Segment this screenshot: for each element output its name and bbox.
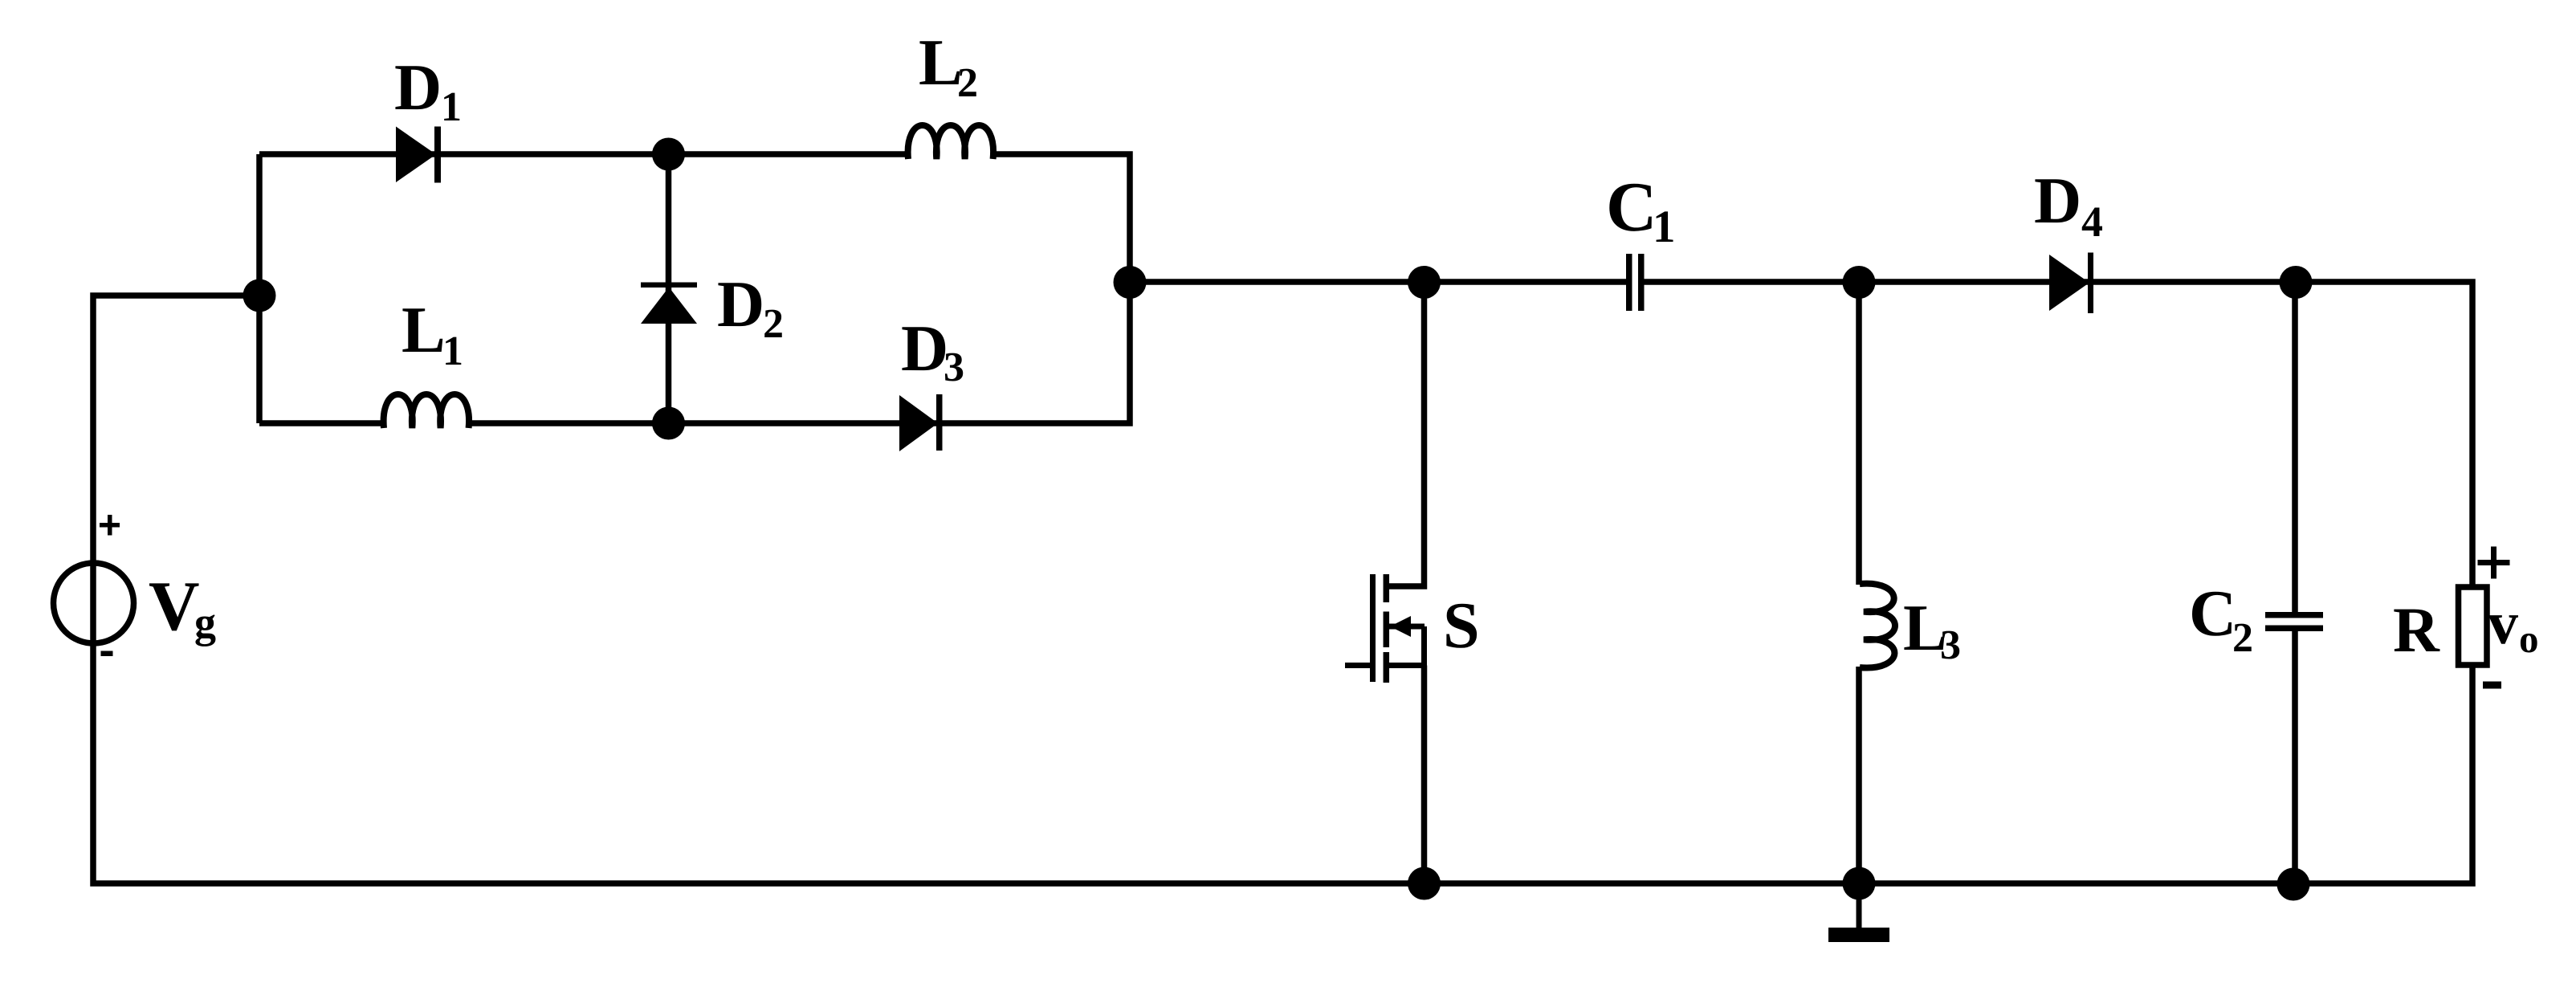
wire mid horizontal right (C1 to D4): [1644, 279, 2091, 285]
svg-text:g: g: [194, 598, 216, 646]
wire mid horizontal left (node C to C1): [1130, 279, 1626, 285]
wire bottom branch left segment: [259, 420, 385, 426]
node C junction: [1114, 266, 1147, 299]
wire L3 branch top: [1856, 282, 1862, 585]
wire input horizontal from Vg to node A: [93, 296, 259, 563]
diode D2: [641, 283, 697, 288]
wire C2 branch bottom: [2292, 631, 2298, 884]
svg-text:C: C: [2189, 577, 2236, 650]
node E junction: [1408, 266, 1441, 299]
wire top branch right to node C: [991, 154, 1130, 283]
wire diode D2 branch vertical: [666, 154, 672, 423]
node F junction: [1843, 266, 1876, 299]
wire L3 branch bottom: [1856, 667, 1862, 883]
wire node A vertical: [256, 154, 263, 423]
capacitor C1: [1626, 254, 1632, 311]
inductor L3: [1860, 584, 1895, 668]
wire S source to bottom rail: [1421, 666, 1428, 884]
wire drain of S from node E: [1387, 282, 1425, 586]
resistor R: [2459, 587, 2488, 665]
svg-text:D: D: [901, 312, 948, 385]
inductor L2: [908, 125, 993, 159]
svg-text:1: 1: [442, 328, 463, 374]
node D junction: [652, 407, 685, 440]
node B junction: [652, 138, 685, 171]
svg-text:C: C: [1606, 169, 1657, 247]
wire top branch left (through D1): [259, 151, 909, 157]
svg-text:D: D: [394, 51, 442, 124]
wire output top (D4 to R branch): [2091, 282, 2472, 587]
svg-text:1: 1: [1653, 202, 1676, 252]
node H junction: [1408, 867, 1441, 900]
svg-text:R: R: [2393, 595, 2440, 666]
svg-text:4: 4: [2081, 198, 2103, 246]
svg-text:3: 3: [944, 345, 964, 390]
voltage source Vg: [54, 563, 134, 643]
svg-text:L: L: [919, 26, 963, 99]
plus terminal Vg: [100, 515, 120, 536]
bottom rail wire with left and right corners: [93, 563, 2472, 883]
svg-text:2: 2: [2232, 615, 2253, 661]
svg-text:L: L: [401, 293, 446, 366]
ground: [1828, 883, 1889, 942]
minus terminal Vg: [101, 651, 113, 657]
transistor S (MOSFET): [1345, 574, 1425, 683]
plus label output: [2478, 547, 2510, 579]
svg-text:D: D: [2034, 164, 2081, 237]
diode D4: [2049, 255, 2089, 311]
node J junction: [2277, 868, 2310, 901]
diode D3: [899, 395, 938, 451]
svg-text:2: 2: [957, 60, 978, 106]
svg-text:D: D: [717, 267, 764, 341]
svg-text:o: o: [2519, 617, 2539, 661]
wire bottom branch right (through D3) to node C: [467, 283, 1130, 423]
svg-text:V: V: [149, 568, 200, 646]
svg-text:2: 2: [763, 301, 784, 347]
capacitor C2: [2265, 612, 2323, 618]
node G junction: [2280, 266, 2313, 299]
node I junction: [1843, 867, 1876, 900]
svg-text:1: 1: [441, 84, 462, 130]
svg-text:3: 3: [1940, 622, 1961, 668]
svg-text:v: v: [2488, 589, 2518, 657]
diode D1: [396, 127, 436, 183]
wire C2 branch top: [2292, 282, 2298, 612]
minus label output: [2483, 682, 2501, 689]
node A junction: [243, 279, 276, 312]
svg-text:S: S: [1443, 589, 1480, 662]
inductor L1: [384, 394, 469, 428]
